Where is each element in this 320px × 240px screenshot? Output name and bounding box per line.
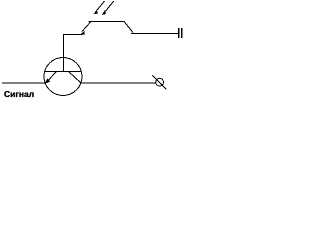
phototransistor VT1 emitter xyxy=(79,22,91,36)
jack X1 circle xyxy=(156,78,164,86)
light arrow 1 xyxy=(94,1,105,14)
label Сигнал xyxy=(4,89,34,99)
phototransistor VT1 collector xyxy=(124,22,133,33)
wire signal input xyxy=(2,82,45,84)
jack X1 diagonal xyxy=(152,75,166,89)
wire base vertical xyxy=(63,34,65,71)
transistor VT2 emitter xyxy=(45,72,57,84)
wire emitter horizontal xyxy=(63,34,80,36)
capacitor C1 plate 2 xyxy=(181,28,182,38)
transistor VT2 base bar xyxy=(45,71,81,73)
wire collector to jack xyxy=(81,82,156,84)
light arrow 2 xyxy=(102,1,114,15)
phototransistor VT1 base bar xyxy=(89,21,125,23)
capacitor C1 plate 1 xyxy=(178,28,179,38)
wire collector to capacitor xyxy=(131,33,178,35)
transistor VT2 envelope circle xyxy=(44,58,82,96)
transistor VT2 collector xyxy=(69,72,82,84)
